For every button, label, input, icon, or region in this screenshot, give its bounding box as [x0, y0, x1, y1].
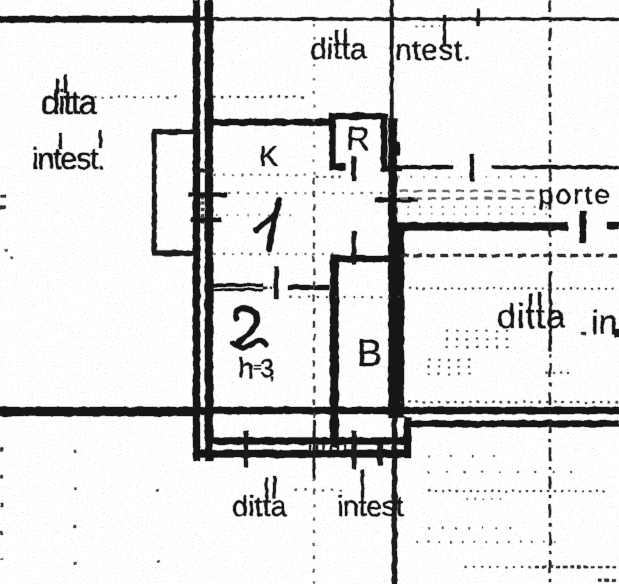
dotted row y215	[216, 214, 300, 216]
svg-text:ditta: ditta	[497, 298, 566, 336]
handwriting ascender strokes right ditta	[529, 294, 532, 306]
svg-text:K: K	[259, 141, 279, 173]
svg-text:ditta: ditta	[310, 33, 367, 66]
bottom wall hatch	[309, 445, 346, 451]
R box left wall foot	[330, 164, 346, 170]
grid vertical line x550	[549, 0, 551, 584]
dotted row y97	[86, 96, 178, 98]
B room top wall	[336, 256, 400, 263]
svg-text:h: h	[238, 353, 254, 385]
door tick above B	[352, 231, 357, 264]
tick crossing top line at x478	[477, 9, 480, 26]
K room top wall	[208, 119, 332, 126]
grid vertical x314 dark segment	[313, 420, 316, 478]
wall opening tick upper	[195, 169, 212, 173]
top boundary line left (thick)	[0, 16, 197, 23]
room number 1 (hand stroke)	[269, 200, 279, 249]
R box right wall	[381, 113, 387, 168]
right wall blob	[390, 142, 400, 155]
handwriting ascender strokes left ditta	[56, 78, 59, 94]
interior wall door tick	[274, 267, 279, 299]
svg-text:intest.: intest.	[32, 141, 104, 176]
top boundary line right (thin dashed)	[196, 18, 619, 21]
dot patch rows y360-374	[428, 359, 478, 361]
handwriting ascender strokes top ditta	[335, 30, 338, 42]
line y167 segment 1	[397, 166, 453, 170]
balcony left wall	[152, 129, 157, 256]
interior wall 1/2 left segment upper stroke	[213, 284, 263, 287]
dot patch rows y331-347	[446, 330, 511, 332]
right boundary line below unit	[392, 418, 397, 584]
interior wall dashes	[263, 286, 272, 289]
faint dashed line y191	[400, 190, 540, 192]
left double wall outer bar	[193, 0, 200, 461]
R box bottom-right connector	[381, 166, 402, 172]
svg-text:intest: intest	[337, 491, 404, 523]
step vertical	[404, 417, 411, 458]
svg-text:R: R	[346, 120, 370, 157]
room number 2 (hand stroke)	[236, 308, 258, 343]
svg-text:,: ,	[269, 359, 275, 384]
svg-text:ditta: ditta	[41, 84, 97, 122]
faint dotted rows y205-218	[396, 206, 556, 208]
unit bottom wall outer line	[196, 450, 411, 458]
terrace thick line y226	[397, 223, 568, 231]
dotted rows lower right	[428, 455, 512, 457]
dotted row y254	[214, 253, 334, 255]
left edge ticks bottom	[0, 447, 3, 560]
tick crossing right wall y199	[375, 198, 418, 203]
left double wall inner bar	[205, 0, 213, 461]
step horizontal line y424	[404, 421, 619, 428]
unit bottom wall inner line	[212, 438, 404, 445]
R box left wall	[330, 113, 336, 170]
grid vertical line x314	[313, 24, 315, 178]
wall opening tick lower	[191, 218, 221, 223]
tick crossing top line at x445	[443, 15, 446, 44]
stray dots	[156, 489, 159, 492]
unit right wall lower (double)	[389, 230, 405, 418]
faint dotted row y177 right	[398, 176, 556, 178]
interior wall right segment	[288, 285, 329, 290]
svg-text:porte: porte	[538, 179, 612, 210]
dotted row y175	[214, 174, 310, 176]
svg-text:in: in	[591, 304, 617, 342]
dotted row y297	[290, 296, 400, 298]
bottom wall tick x380	[378, 443, 383, 465]
balcony top edge	[152, 130, 199, 135]
stray mark right edge	[615, 329, 619, 337]
dots y373 right	[546, 372, 570, 374]
dotted row y402	[400, 401, 619, 403]
right wall thin (above unit)	[390, 0, 394, 119]
sparse dot column x75 bottom-left	[74, 450, 76, 565]
balcony bottom edge	[152, 251, 199, 257]
svg-text:intest.: intest.	[388, 34, 472, 67]
wall opening tick mid	[188, 193, 227, 198]
R box top wall	[329, 113, 388, 120]
dotted row y193	[228, 192, 398, 194]
bottom wall tick x354	[352, 431, 357, 469]
unit right wall upper	[389, 119, 398, 230]
grid x550 solid segment	[549, 272, 552, 352]
dashed line y255 right	[401, 254, 619, 257]
long boundary line y410	[0, 407, 619, 414]
line y167 segment 2	[492, 166, 619, 169]
terrace stub right	[607, 222, 619, 229]
svg-text:B: B	[357, 333, 382, 375]
interior wall 1/2 left segment lower stroke	[213, 289, 263, 292]
B room left wall	[330, 255, 339, 447]
terrace tick x583	[580, 211, 587, 243]
tick on line y167	[470, 154, 474, 181]
bottom wall tick x246	[244, 431, 248, 467]
handwriting ascender strokes bottom	[265, 478, 268, 498]
faint dashed line y198	[400, 198, 540, 200]
wall hatch between bars	[201, 196, 204, 223]
door tick below R	[352, 156, 357, 181]
svg-text:ditta: ditta	[232, 491, 288, 523]
dotted row y288 right	[409, 288, 619, 290]
